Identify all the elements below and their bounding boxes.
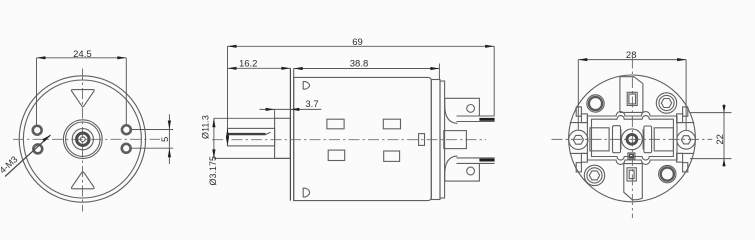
dim 24.5 line — [37, 57, 127, 59]
rear bearing thick ring — [627, 134, 637, 144]
oil cap square below bearing — [628, 153, 635, 159]
right brush holder — [644, 126, 652, 153]
dim dia11.3 line — [213, 118, 215, 158]
svg-text:5: 5 — [160, 137, 171, 142]
hub ring 1 — [63, 120, 102, 159]
dim 22 extension bottom — [690, 158, 732, 160]
vent hole lower-left — [328, 150, 345, 160]
svg-text:Ø3.175: Ø3.175 — [208, 156, 218, 186]
mounting hole lower-right ring — [122, 144, 130, 152]
4-M3 leader line — [5, 135, 51, 177]
dim dia11.3 extension top — [214, 117, 275, 119]
dim 5 arrow top — [168, 121, 171, 130]
dim 28 arrow left — [578, 58, 587, 61]
dim 22 arrow top (outside) — [722, 105, 725, 113]
left wing top line — [570, 122, 588, 124]
dim 69 line — [228, 45, 495, 47]
shaft flat line — [228, 133, 266, 135]
dim 28 extension left — [577, 60, 579, 130]
mounting hole upper-left outer — [32, 125, 42, 135]
lower terminal lug bottom line — [457, 162, 495, 164]
right wing step rect bottom inner — [677, 153, 683, 162]
motor can outline — [294, 77, 432, 200]
svg-text:3.7: 3.7 — [305, 99, 318, 110]
dim 5 line — [168, 114, 170, 164]
vent hole upper-left — [327, 119, 344, 129]
side view centerline — [212, 139, 486, 141]
svg-text:38.8: 38.8 — [350, 59, 369, 70]
right wing top line — [677, 122, 694, 124]
front flange line B — [293, 68, 295, 200]
shaft hole circle — [80, 137, 85, 142]
dim 69 arrow right — [485, 45, 494, 48]
bearing tangent wall left — [620, 129, 622, 149]
horizontal centerline — [13, 138, 160, 140]
vent hole lower-right — [384, 151, 400, 161]
endbell ring B — [440, 81, 445, 198]
dim 69 extension left — [227, 46, 229, 133]
dim 69 arrow left — [228, 45, 237, 48]
mounting hole lower-left ring — [34, 145, 42, 153]
dim 38.8 line — [294, 68, 440, 70]
screw hex upper-right — [661, 99, 671, 108]
top tab base line — [620, 111, 643, 113]
dim 69 extension right — [493, 46, 495, 116]
commutator rect at can end — [419, 134, 425, 146]
bottom tab outline — [624, 164, 643, 200]
left through-bolt boss circle — [569, 130, 588, 149]
top tab small rect — [627, 92, 637, 105]
center band outer rect with wire humps — [587, 112, 677, 165]
mounting hole lower-right outer — [121, 143, 131, 153]
left through-bolt hex — [573, 135, 583, 144]
svg-text:24.5: 24.5 — [73, 49, 92, 60]
endbell ring A — [431, 80, 440, 200]
left wing step rect top outer — [576, 107, 581, 116]
svg-text:22: 22 — [715, 134, 726, 145]
upper terminal hole — [467, 105, 475, 113]
hub bearing thick ring — [77, 133, 89, 145]
center band inner rect with wire humps — [592, 116, 674, 161]
mounting pad upper-left ring — [589, 97, 602, 110]
bottom triangle marker — [71, 172, 94, 189]
screw boss upper-right mid — [659, 95, 674, 110]
dim 5 extension line bottom — [132, 147, 173, 149]
dim 28 extension right — [685, 60, 687, 130]
left brush holder — [613, 126, 621, 153]
rear horizontal centerline — [552, 138, 713, 140]
mounting pad lower-right outer — [659, 165, 676, 182]
dim 22 extension top — [690, 112, 732, 114]
dim 3.7 arrow left (outside pointing right) — [266, 108, 275, 111]
dim dia3.175 arrow bottom (at shaft tip) — [226, 137, 229, 146]
left chamber rect — [590, 128, 609, 151]
dim 28 arrow right — [677, 58, 686, 61]
dim 16.2 arrow left — [228, 67, 237, 70]
rear endbell outer circle — [569, 75, 696, 202]
front flange line A — [289, 68, 291, 200]
bearing tangent wall right — [642, 129, 644, 149]
right through-bolt boss circle — [677, 131, 696, 150]
lower brush block — [445, 156, 480, 181]
shaft flat runout — [266, 132, 271, 134]
dim dia11.3 arrow bottom — [212, 149, 215, 158]
dim 38.8 arrow left — [294, 67, 303, 70]
right chamber rect — [654, 128, 673, 151]
dim 3.7 line — [260, 108, 322, 110]
dim 16.2 line — [228, 67, 291, 69]
bushing outline — [275, 118, 291, 158]
screw boss lower-left outer — [584, 165, 604, 185]
vertical centerline — [82, 69, 84, 212]
upper brush block — [445, 98, 480, 123]
4-M3 leader arrow — [42, 135, 50, 142]
right wing step rect top outer — [683, 107, 688, 116]
screw boss lower-left mid — [587, 168, 602, 183]
oil cap square inner — [630, 154, 634, 157]
bottom tab base line — [624, 163, 643, 165]
dim 5 extension line top — [132, 129, 173, 131]
upper terminal lug bottom line — [457, 121, 495, 123]
lower terminal lug top line — [457, 157, 495, 159]
svg-text:16.2: 16.2 — [239, 58, 258, 69]
can crimp tab upper (D mark) — [303, 82, 309, 90]
dim 3.7 arrow right (outside pointing left) — [290, 108, 299, 111]
dim 5 arrow bottom — [168, 148, 171, 157]
upper terminal lug top line — [457, 115, 495, 117]
mounting hole upper-left ring — [33, 126, 41, 134]
right through-bolt hex — [681, 136, 691, 144]
dim 3.7 extension (bushing face) — [274, 109, 276, 118]
front housing inner circle — [23, 80, 141, 198]
screw boss upper-right outer — [656, 93, 676, 113]
dim 24.5 extension line left — [36, 58, 38, 125]
dim 38.8 arrow right — [430, 67, 439, 70]
mounting hole upper-right ring — [122, 126, 130, 134]
bottom tab small rect — [627, 168, 636, 181]
top tab small rect inner — [629, 94, 636, 104]
mounting hole lower-left outer — [33, 144, 43, 154]
dim 22 line — [723, 104, 725, 167]
dim 22 arrow bottom (outside) — [722, 159, 725, 167]
left wing step rect bottom outer — [576, 163, 581, 172]
dim dia3.175 arrow top (at shaft tip) — [226, 128, 229, 137]
right wing step rect bottom outer — [683, 163, 688, 172]
hub ring 2 — [66, 122, 100, 156]
right wing bottom line — [677, 152, 694, 154]
dim 38.8 extension right — [438, 64, 440, 80]
can crimp tab lower (D mark) — [303, 188, 309, 197]
svg-text:Ø11.3: Ø11.3 — [201, 115, 211, 139]
lower terminal lug tip — [479, 159, 494, 162]
dim dia11.3 extension bottom — [214, 157, 290, 159]
vent hole upper-right — [383, 119, 400, 129]
right wing step rect top inner — [677, 114, 683, 123]
upper terminal lug tip — [479, 118, 494, 121]
mounting hole upper-right outer — [121, 125, 131, 135]
dim 24.5 arrow left — [37, 56, 46, 59]
dim 24.5 arrow right — [117, 56, 126, 59]
left wing step rect bottom inner — [581, 153, 587, 162]
left wing step rect top inner — [581, 114, 587, 123]
mounting pad lower-right ring — [661, 168, 674, 181]
dim dia11.3 arrow top — [212, 118, 215, 127]
dim 28 line — [578, 59, 686, 61]
bottom tab small rect inner — [629, 170, 634, 178]
dim 16.2 arrow right — [281, 67, 290, 70]
top tab outline — [620, 77, 643, 113]
rear bearing outer circle — [622, 129, 643, 150]
svg-text:28: 28 — [626, 50, 637, 61]
mounting pad upper-left outer — [587, 95, 604, 112]
lower terminal hole — [467, 167, 475, 175]
hub ring 3 — [72, 129, 93, 150]
dim 24.5 extension line right — [125, 58, 127, 124]
left wing bottom line — [570, 152, 588, 154]
rear vertical centerline — [631, 58, 633, 219]
top triangle marker — [71, 90, 94, 107]
rear bearing boss — [444, 131, 467, 149]
screw hex lower-left — [589, 171, 599, 180]
shaft outline — [228, 128, 275, 146]
front housing outer circle — [19, 76, 145, 202]
svg-text:69: 69 — [352, 37, 363, 48]
